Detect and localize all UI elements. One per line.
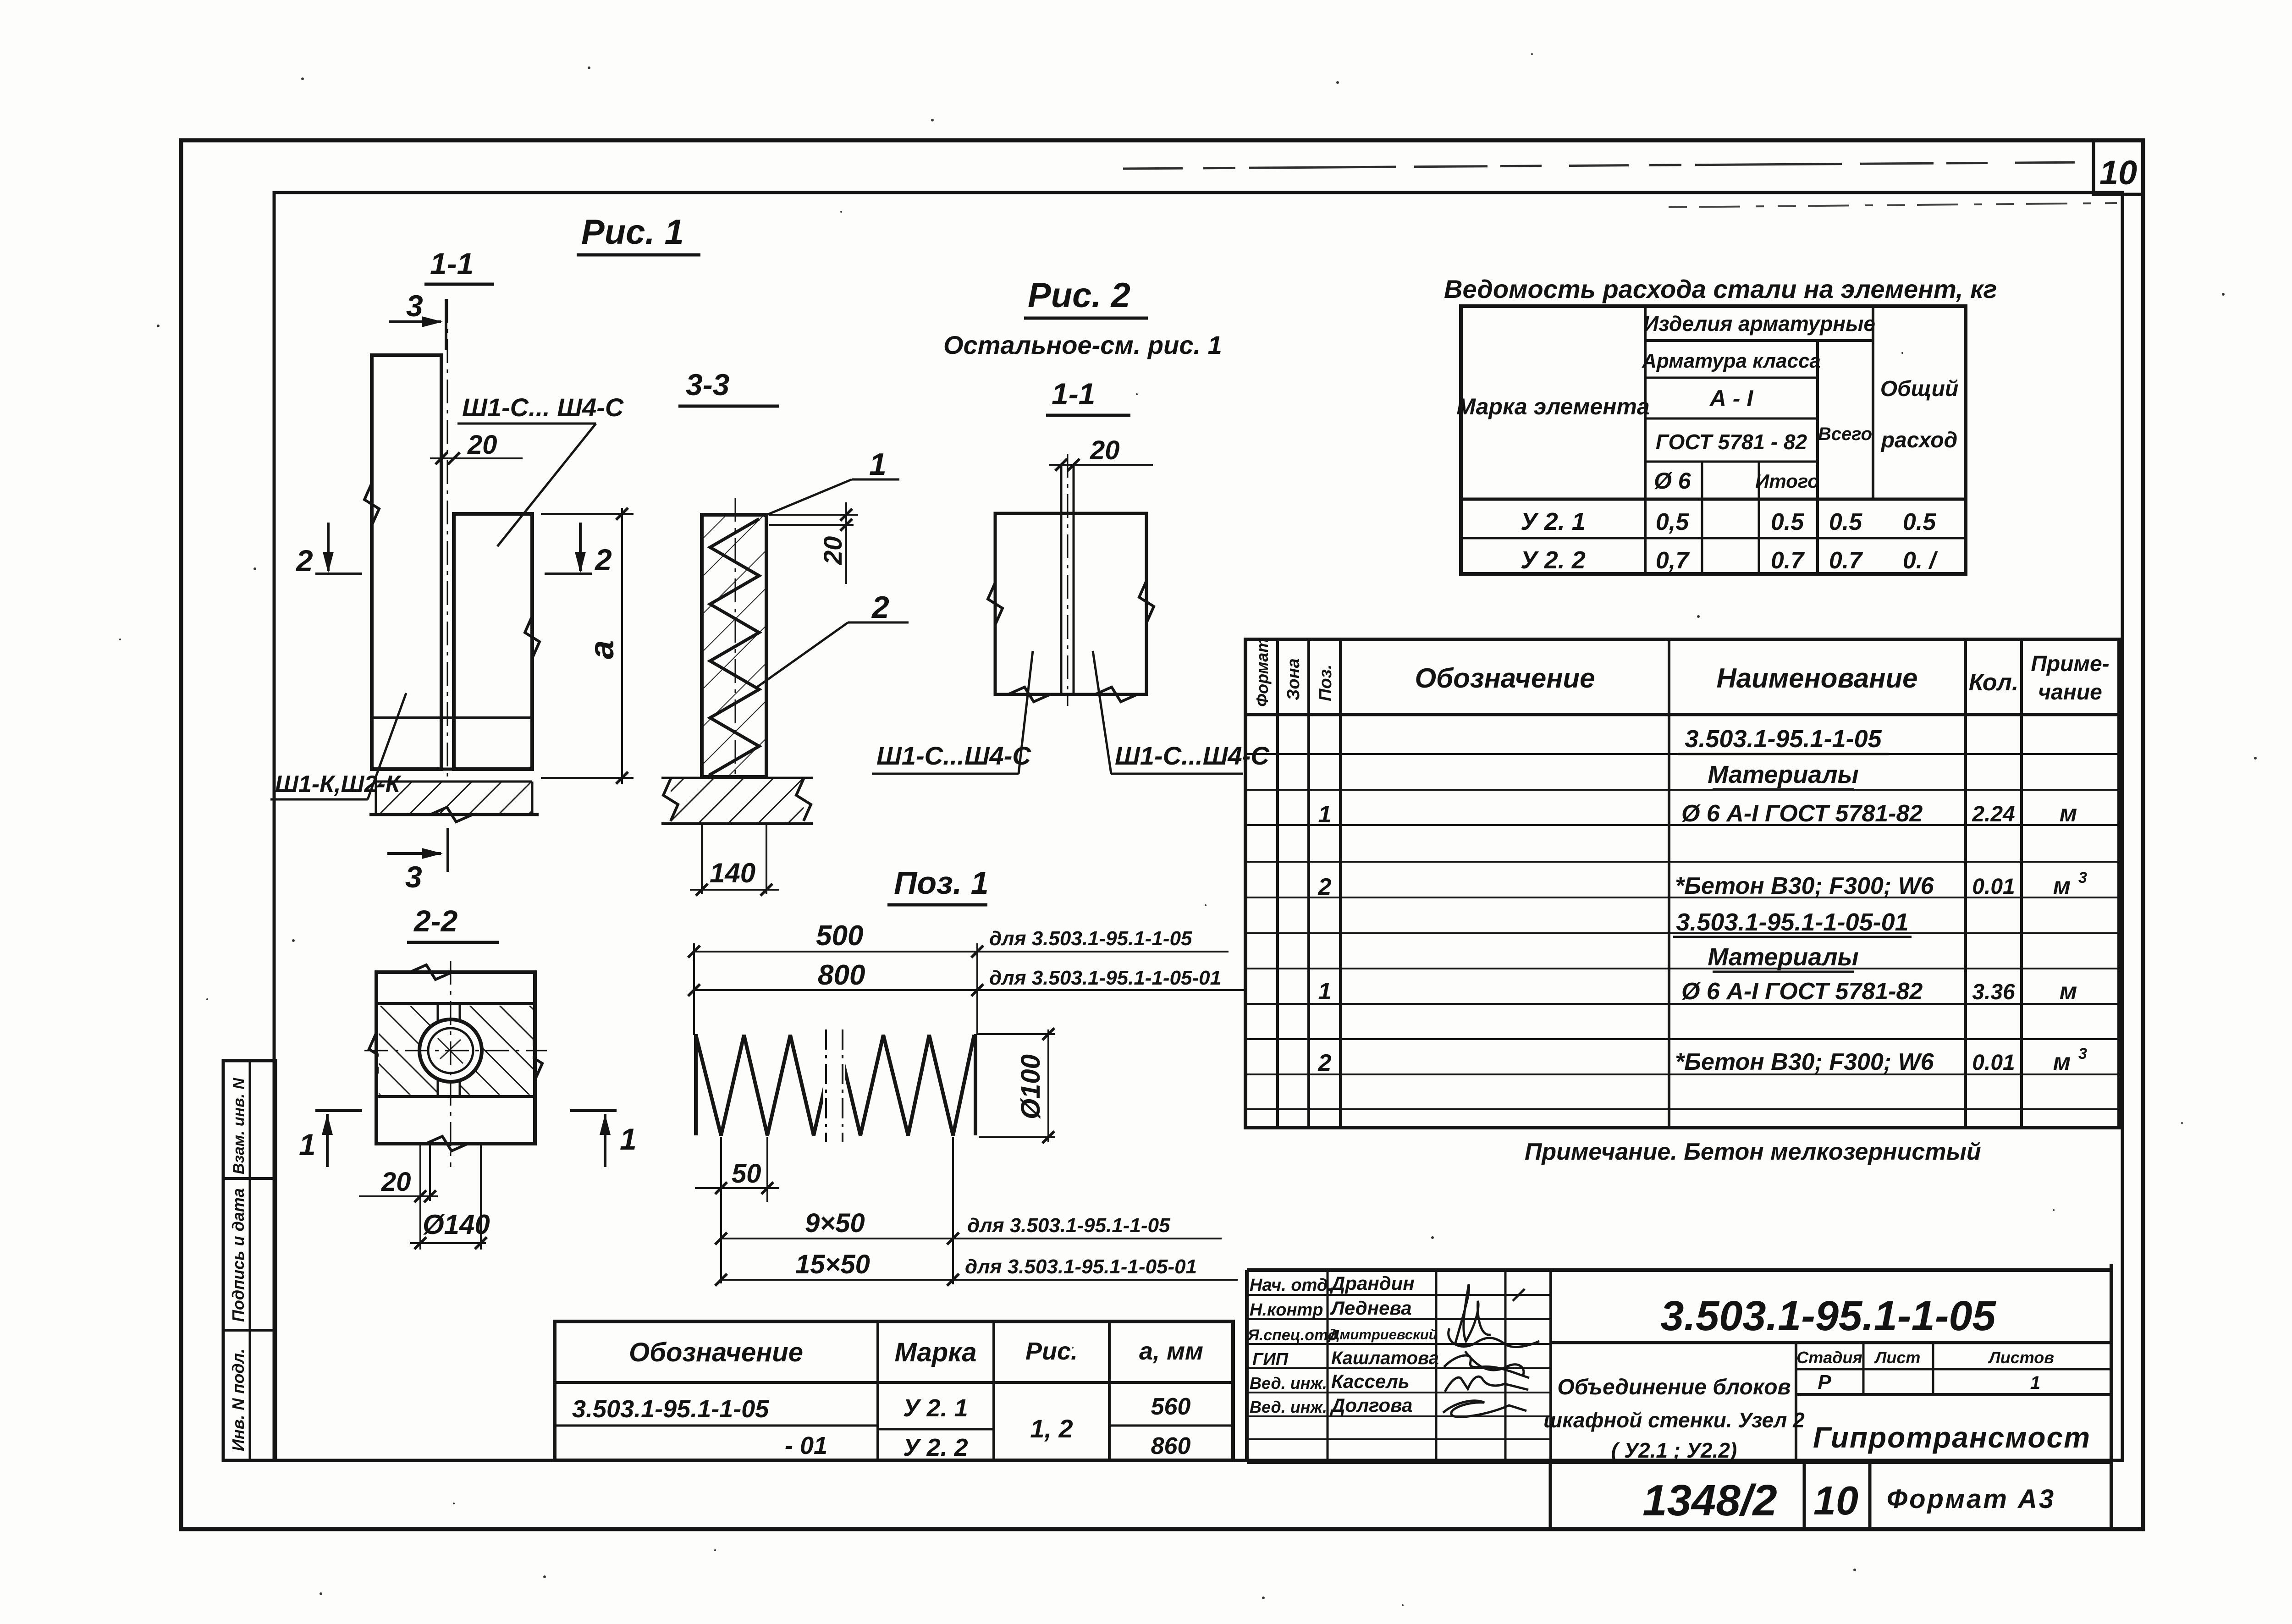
svg-text:м: м bbox=[2053, 1049, 2071, 1075]
spring dim extension verticals top bbox=[694, 943, 977, 1035]
spring dim 9x50 bbox=[715, 1137, 1222, 1284]
svg-text:Наименование: Наименование bbox=[1716, 663, 1917, 694]
svg-text:шкафной стенки. Узел 2: шкафной стенки. Узел 2 bbox=[1543, 1408, 1805, 1432]
svg-text:20: 20 bbox=[467, 430, 497, 460]
svg-text:20: 20 bbox=[381, 1167, 411, 1197]
spec row beton 1 bbox=[1318, 869, 2087, 900]
svg-text:140: 140 bbox=[710, 858, 755, 888]
fig2 label Sh1-S left bbox=[872, 651, 1033, 774]
fig1 section marker 2 right bbox=[545, 523, 612, 577]
steel consumption table grid bbox=[1461, 306, 1966, 574]
svg-text:0.01: 0.01 bbox=[1972, 875, 2015, 899]
fig2 section title 1-1 bbox=[1046, 377, 1130, 415]
steel table header texts bbox=[1456, 312, 1958, 494]
fig33 column hatched with spiral bbox=[702, 515, 766, 777]
fig22 caption 2-2 bbox=[407, 904, 499, 942]
svg-text:а, мм: а, мм bbox=[1139, 1338, 1203, 1365]
fig22 seam lines bbox=[438, 1003, 460, 1096]
fig1 caption Ris.1 bbox=[577, 213, 700, 255]
svg-text:Кассель: Кассель bbox=[1331, 1371, 1410, 1392]
svg-text:У 2. 2: У 2. 2 bbox=[1521, 546, 1586, 574]
svg-text:0.01: 0.01 bbox=[1972, 1051, 2015, 1075]
svg-text:Вед. инж.: Вед. инж. bbox=[1250, 1374, 1327, 1393]
svg-text:3.503.1-95.1-1-05: 3.503.1-95.1-1-05 bbox=[1685, 725, 1882, 753]
svg-text:1, 2: 1, 2 bbox=[1030, 1414, 1073, 1443]
svg-text:1: 1 bbox=[1318, 978, 1332, 1005]
svg-text:Ведомость расхода стали на эл: Ведомость расхода стали на элемент, кг bbox=[1444, 275, 1997, 303]
fig1 horizontal joint line bbox=[372, 716, 532, 719]
svg-text:9×50: 9×50 bbox=[805, 1208, 865, 1238]
svg-text:3: 3 bbox=[2078, 869, 2087, 886]
svg-text:Объединение блоков: Объединение блоков bbox=[1557, 1375, 1791, 1399]
svg-text:для 3.503.1-95.1-1-05-01: для 3.503.1-95.1-1-05-01 bbox=[965, 1255, 1197, 1278]
svg-text:10: 10 bbox=[2099, 154, 2137, 192]
svg-text:для 3.503.1-95.1-1-05-01: для 3.503.1-95.1-1-05-01 bbox=[989, 967, 1221, 989]
svg-text:чание: чание bbox=[2038, 680, 2102, 705]
spring dim 15x50 bbox=[715, 1250, 1238, 1286]
fig33 centerline bbox=[735, 498, 736, 796]
spec row docnum 05 bbox=[1678, 725, 1889, 754]
scan streak top bbox=[1123, 162, 2088, 169]
fig1 left block outline bbox=[364, 355, 441, 769]
spring dim 500 bbox=[688, 920, 1229, 958]
svg-text:Рис.: Рис. bbox=[1025, 1338, 1078, 1365]
fig33 leader 1 bbox=[764, 447, 899, 516]
spec row rebar 1 bbox=[1318, 800, 2077, 828]
svg-text:У 2. 2: У 2. 2 bbox=[903, 1434, 968, 1461]
svg-text:560: 560 bbox=[1151, 1393, 1191, 1420]
steel table row U2.2 bbox=[1521, 546, 1939, 574]
svg-text:Стадия: Стадия bbox=[1796, 1348, 1862, 1367]
svg-text:3.36: 3.36 bbox=[1972, 980, 2015, 1004]
fig22 section marker 1 left bbox=[299, 1111, 362, 1167]
svg-text:Нач. отд.: Нач. отд. bbox=[1250, 1276, 1333, 1295]
svg-text:Дмитриевский: Дмитриевский bbox=[1328, 1327, 1438, 1343]
svg-text:0.5: 0.5 bbox=[1903, 509, 1936, 535]
fig2 seam bbox=[1061, 454, 1074, 706]
svg-text:2: 2 bbox=[594, 543, 612, 577]
fig1 section title 1-1 bbox=[424, 247, 494, 284]
svg-text:Гипротрансмост: Гипротрансмост bbox=[1813, 1421, 2091, 1454]
svg-text:Ø 6 А-Ι ГОСТ 5781-82: Ø 6 А-Ι ГОСТ 5781-82 bbox=[1681, 978, 1923, 1005]
fig22 centerlines bbox=[364, 961, 547, 1167]
svg-text:2: 2 bbox=[1318, 1050, 1332, 1076]
fig22 dim 20 bbox=[359, 1167, 438, 1202]
spec row beton 2 bbox=[1318, 1045, 2087, 1076]
spec row docnum 05-01 bbox=[1673, 908, 1912, 937]
spec row materialy 1 bbox=[1708, 761, 1858, 789]
svg-text:Драндин: Драндин bbox=[1330, 1272, 1415, 1294]
svg-text:2: 2 bbox=[295, 544, 313, 578]
fig22 hatch right bbox=[461, 1006, 533, 1095]
svg-text:800: 800 bbox=[818, 959, 865, 991]
spring dim 800 bbox=[688, 959, 1244, 996]
svg-text:Общий: Общий bbox=[1880, 377, 1959, 401]
spec row materialy 2 bbox=[1708, 943, 1858, 972]
outer border bbox=[181, 140, 2143, 1529]
signature rows texts bbox=[1247, 1272, 1439, 1416]
inner frame bbox=[274, 193, 2122, 1460]
svg-text:2.24: 2.24 bbox=[1972, 802, 2015, 826]
svg-text:А - Ι: А - Ι bbox=[1709, 385, 1754, 411]
fig1 section marker 3 top bbox=[389, 289, 446, 350]
svg-text:У 2. 1: У 2. 1 bbox=[903, 1394, 968, 1422]
fig22 block outline bbox=[369, 965, 542, 1151]
fig22 pipe circle bbox=[419, 1019, 482, 1082]
svg-text:0. /: 0. / bbox=[1903, 547, 1939, 574]
fig1 mortar strip bbox=[372, 768, 532, 771]
svg-text:0,5: 0,5 bbox=[1656, 509, 1689, 535]
fig33 foundation hatched bbox=[661, 778, 813, 824]
fig2 caption Ris.2 bbox=[1024, 276, 1148, 318]
svg-text:0,7: 0,7 bbox=[1656, 547, 1690, 574]
title block bottom row bbox=[1550, 1462, 2055, 1529]
svg-text:Долгова: Долгова bbox=[1330, 1394, 1412, 1416]
svg-text:Итого: Итого bbox=[1755, 470, 1819, 492]
svg-text:3.503.1-95.1-1-05: 3.503.1-95.1-1-05 bbox=[572, 1395, 769, 1423]
svg-text:Марка: Марка bbox=[894, 1338, 976, 1367]
svg-text:Формат: Формат bbox=[1253, 638, 1272, 707]
svg-text:15×50: 15×50 bbox=[795, 1250, 870, 1279]
svg-text:расход: расход bbox=[1880, 428, 1958, 452]
page number box top-right bbox=[2094, 140, 2143, 194]
spec table header texts bbox=[1253, 638, 2110, 707]
spec table grid bbox=[1245, 639, 2119, 1128]
svg-text:Всего: Всего bbox=[1818, 424, 1872, 444]
svg-text:У 2. 1: У 2. 1 bbox=[1521, 508, 1586, 535]
svg-text:Ø 6 А-Ι ГОСТ 5781-82: Ø 6 А-Ι ГОСТ 5781-82 bbox=[1681, 800, 1923, 827]
fig1 right block outline bbox=[454, 514, 540, 769]
fig33 dim 20 vertical bbox=[769, 502, 858, 584]
svg-text:3.503.1-95.1-1-05: 3.503.1-95.1-1-05 bbox=[1660, 1293, 1996, 1339]
svg-text:20: 20 bbox=[818, 536, 847, 565]
svg-text:1: 1 bbox=[620, 1122, 637, 1156]
fig22 extension lines bbox=[420, 1145, 481, 1250]
svg-text:2: 2 bbox=[1318, 874, 1332, 900]
svg-text:для 3.503.1-95.1-1-05: для 3.503.1-95.1-1-05 bbox=[967, 1214, 1170, 1237]
svg-text:Приме-: Приме- bbox=[2031, 652, 2109, 676]
title block stadia list listov bbox=[1796, 1343, 2111, 1462]
svg-text:Ш1-С...Ш4-С: Ш1-С...Ш4-С bbox=[876, 741, 1031, 770]
svg-text:1-1: 1-1 bbox=[430, 247, 474, 281]
marks table row 2 bbox=[785, 1414, 1190, 1461]
svg-text:1: 1 bbox=[1318, 801, 1332, 828]
fig33 caption 3-3 bbox=[678, 368, 779, 406]
spring dim D100 bbox=[977, 1028, 1055, 1143]
fig22 dim D140 bbox=[410, 1209, 490, 1249]
svg-text:500: 500 bbox=[816, 920, 863, 952]
svg-text:1-1: 1-1 bbox=[1052, 377, 1095, 411]
svg-text:*Бетон В30; F300; W6: *Бетон В30; F300; W6 bbox=[1675, 1049, 1934, 1075]
title block signature grid bbox=[1247, 1270, 1551, 1462]
fig2 block outline bbox=[988, 513, 1154, 702]
fig1 label Sh1-S...Sh4-S bbox=[457, 393, 624, 546]
svg-text:*Бетон В30; F300; W6: *Бетон В30; F300; W6 bbox=[1675, 873, 1934, 899]
svg-text:ГОСТ 5781 - 82: ГОСТ 5781 - 82 bbox=[1656, 430, 1807, 454]
marks table grid bbox=[555, 1321, 1233, 1460]
svg-text:Ø140: Ø140 bbox=[423, 1209, 490, 1240]
svg-text:- 01: - 01 bbox=[785, 1432, 827, 1459]
svg-text:3-3: 3-3 bbox=[686, 368, 729, 402]
fig2 dim 20 bbox=[1049, 435, 1153, 471]
svg-text:Примечание. Бетон мелкозерни: Примечание. Бетон мелкозернистый bbox=[1525, 1139, 1981, 1165]
svg-text:2: 2 bbox=[871, 590, 889, 625]
svg-text:Материалы: Материалы bbox=[1708, 761, 1858, 788]
svg-text:Формат А3: Формат А3 bbox=[1887, 1484, 2055, 1514]
svg-text:Остальное-см. рис. 1: Остальное-см. рис. 1 bbox=[943, 330, 1222, 359]
svg-text:860: 860 bbox=[1151, 1433, 1191, 1459]
marks table header bbox=[629, 1338, 1203, 1367]
svg-text:3: 3 bbox=[405, 860, 422, 894]
svg-text:Ш1-С... Ш4-С: Ш1-С... Ш4-С bbox=[462, 393, 624, 422]
svg-text:Рис. 2: Рис. 2 bbox=[1028, 276, 1130, 315]
svg-text:Ø100: Ø100 bbox=[1016, 1054, 1046, 1119]
title block project name bbox=[1543, 1375, 1805, 1462]
svg-text:( У2.1 ; У2.2): ( У2.1 ; У2.2) bbox=[1611, 1438, 1737, 1462]
svg-text:20: 20 bbox=[1090, 435, 1120, 465]
svg-text:Марка элемента: Марка элемента bbox=[1456, 394, 1649, 419]
scan streak 2 bbox=[1669, 203, 2117, 207]
svg-text:0.7: 0.7 bbox=[1771, 547, 1805, 574]
svg-text:Подпись и дата: Подпись и дата bbox=[229, 1188, 248, 1322]
svg-text:1: 1 bbox=[869, 447, 887, 482]
svg-text:Кашлатова: Кашлатова bbox=[1331, 1348, 1439, 1368]
signatures scribbles bbox=[1443, 1284, 1539, 1417]
svg-text:1: 1 bbox=[299, 1128, 316, 1162]
svg-text:Кол.: Кол. bbox=[1969, 669, 2019, 696]
svg-text:Зона: Зона bbox=[1284, 658, 1303, 700]
svg-text:Я.спец.отд: Я.спец.отд bbox=[1247, 1327, 1338, 1344]
svg-text:Инв. N подл.: Инв. N подл. bbox=[229, 1349, 248, 1451]
svg-text:Поз.: Поз. bbox=[1316, 665, 1335, 702]
svg-text:ГИП: ГИП bbox=[1252, 1350, 1289, 1369]
svg-text:Лист: Лист bbox=[1874, 1348, 1921, 1367]
svg-text:Ш1-К,Ш2-К: Ш1-К,Ш2-К bbox=[275, 771, 402, 798]
fig22 section marker 1 right bbox=[570, 1111, 637, 1167]
fig1 seam centerline bbox=[447, 299, 448, 779]
fig1 section marker 2 left bbox=[295, 523, 362, 578]
svg-text:м: м bbox=[2060, 978, 2077, 1005]
left attribute strip boxes bbox=[223, 1061, 275, 1460]
fig1 section marker 3 bottom bbox=[387, 828, 448, 894]
svg-text:Листов: Листов bbox=[1988, 1348, 2054, 1367]
svg-text:а: а bbox=[583, 640, 621, 659]
spec row rebar 2 bbox=[1318, 978, 2077, 1005]
spring caption Poz.1 bbox=[887, 865, 989, 905]
svg-text:Вед. инж.: Вед. инж. bbox=[1250, 1398, 1327, 1416]
fig33 dim 140 bbox=[690, 825, 779, 896]
fig1 label Sh1-K,Sh2-K bbox=[270, 693, 406, 799]
fig2 label Sh1-S right bbox=[1093, 651, 1270, 774]
svg-text:Леднева: Леднева bbox=[1330, 1297, 1412, 1319]
svg-text:м: м bbox=[2060, 800, 2077, 827]
svg-text:50: 50 bbox=[732, 1159, 761, 1189]
fig33 leader 2 bbox=[756, 590, 909, 688]
svg-text:0.7: 0.7 bbox=[1829, 547, 1863, 574]
svg-text:2-2: 2-2 bbox=[413, 904, 458, 938]
svg-text:Арматура класса: Арматура класса bbox=[1642, 350, 1821, 372]
steel table row U2.1 bbox=[1521, 508, 1936, 535]
svg-text:Обозначение: Обозначение bbox=[1415, 663, 1595, 694]
svg-text:3: 3 bbox=[406, 289, 423, 323]
svg-text:Обозначение: Обозначение bbox=[629, 1338, 803, 1367]
svg-text:Н.контр: Н.контр bbox=[1250, 1300, 1323, 1320]
spring zigzag bbox=[696, 1027, 975, 1142]
marks table row 1 bbox=[572, 1393, 1190, 1423]
title block doc number cell bbox=[1551, 1293, 2111, 1343]
fig22 hatch left bbox=[379, 1006, 437, 1095]
svg-text:Рис. 1: Рис. 1 bbox=[581, 213, 684, 252]
svg-text:3: 3 bbox=[2078, 1045, 2087, 1062]
fig1 dim 20 bbox=[430, 430, 523, 464]
svg-text:Изделия арматурные: Изделия арматурные bbox=[1643, 312, 1875, 336]
fig1 foundation hatched bbox=[369, 782, 539, 822]
svg-text:10: 10 bbox=[1813, 1478, 1858, 1523]
svg-text:Р: Р bbox=[1818, 1371, 1831, 1393]
svg-text:м: м bbox=[2053, 873, 2071, 899]
spring dim 50 bbox=[695, 1137, 779, 1283]
svg-text:Материалы: Материалы bbox=[1708, 943, 1858, 971]
svg-text:3.503.1-95.1-1-05-01: 3.503.1-95.1-1-05-01 bbox=[1676, 908, 1908, 936]
fig1 dim a bbox=[541, 508, 634, 784]
svg-text:для 3.503.1-95.1-1-05: для 3.503.1-95.1-1-05 bbox=[989, 927, 1192, 950]
svg-text:1: 1 bbox=[2030, 1373, 2040, 1393]
svg-text:0.5: 0.5 bbox=[1829, 509, 1862, 535]
svg-text:Ø 6: Ø 6 bbox=[1654, 468, 1691, 494]
svg-text:Поз. 1: Поз. 1 bbox=[894, 865, 989, 901]
svg-text:Взам. инв. N: Взам. инв. N bbox=[230, 1077, 248, 1174]
svg-text:0.5: 0.5 bbox=[1771, 509, 1804, 535]
title block outline bbox=[1247, 1264, 2111, 1529]
svg-text:1348/2: 1348/2 bbox=[1642, 1476, 1777, 1525]
